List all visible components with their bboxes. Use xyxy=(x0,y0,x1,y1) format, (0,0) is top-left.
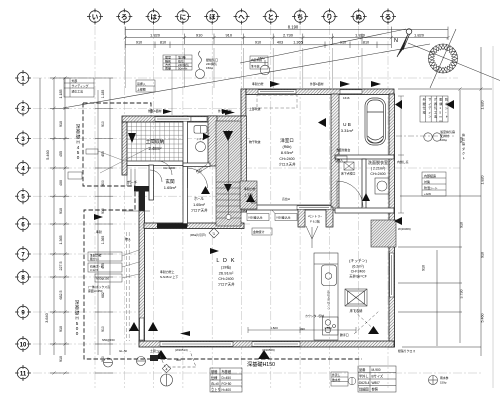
svg-text:フロア天井: フロア天井 xyxy=(191,208,209,213)
svg-text:気: 気 xyxy=(462,137,465,142)
svg-text:910: 910 xyxy=(481,252,485,258)
svg-text:仕様: 仕様 xyxy=(211,375,218,380)
svg-text:910: 910 xyxy=(59,208,63,214)
svg-text:455: 455 xyxy=(101,151,105,157)
svg-text:カウンタ−収納: カウンタ−収納 xyxy=(305,313,324,318)
svg-text:910: 910 xyxy=(136,41,142,45)
svg-text:ン: ン xyxy=(428,115,431,119)
svg-text:26.91m²: 26.91m² xyxy=(219,271,234,276)
svg-text:様: 様 xyxy=(423,109,426,114)
svg-text:1.820: 1.820 xyxy=(481,101,485,110)
left info box stack xyxy=(68,149,122,282)
porch step dashes bottom xyxy=(158,351,196,367)
bathtub xyxy=(365,98,386,145)
grid column marker へ xyxy=(234,9,250,25)
svg-text:クロス天井: クロス天井 xyxy=(279,162,297,167)
svg-text:内倒し窓: 内倒し窓 xyxy=(397,159,409,164)
svg-text:CH=2400: CH=2400 xyxy=(370,172,385,176)
svg-text:CH=2400: CH=2400 xyxy=(218,277,233,281)
svg-text:( 2.21m²): ( 2.21m²) xyxy=(371,167,386,171)
svg-text:910: 910 xyxy=(255,41,261,45)
svg-text:サイディング: サイディング xyxy=(72,83,89,88)
svg-text:GL±0: GL±0 xyxy=(211,382,219,386)
svg-text:内装制限: 内装制限 xyxy=(251,58,262,62)
svg-text:風量: 風量 xyxy=(165,66,171,71)
grid row marker 1 xyxy=(15,70,31,86)
svg-text:(R6b): (R6b) xyxy=(283,145,292,149)
svg-text:準耐力壁: 準耐力壁 xyxy=(252,81,264,86)
svg-text:洋室ロ: 洋室ロ xyxy=(280,137,294,144)
svg-text:ポ−チ: ポ−チ xyxy=(127,179,138,185)
svg-text:内部結露: 内部結露 xyxy=(424,173,436,178)
svg-text:参照: 参照 xyxy=(372,387,379,392)
svg-text:N-N45×2 上下: N-N45×2 上下 xyxy=(160,274,178,279)
svg-text:防湿シ−ト: 防湿シ−ト xyxy=(424,185,438,190)
bottom right small box and circle xyxy=(331,372,356,386)
svg-text:法: 法 xyxy=(434,114,437,119)
svg-text:490: 490 xyxy=(300,327,305,331)
svg-text:る: る xyxy=(385,13,392,21)
grid column marker ろ xyxy=(116,9,132,25)
hall diagonal slashes xyxy=(196,165,209,174)
svg-text:物入: 物入 xyxy=(337,157,343,162)
shear wall triangles xyxy=(94,81,454,359)
grid column marker い xyxy=(87,9,103,25)
closet hatched block bedroom xyxy=(240,181,257,209)
svg-text:片引: 片引 xyxy=(196,168,202,173)
svg-text:1.185: 1.185 xyxy=(59,90,63,99)
bedroom bottom legend boxes xyxy=(244,210,297,235)
svg-text:5.460: 5.460 xyxy=(481,314,485,323)
deep foundation dashed line xyxy=(83,103,362,359)
svg-text:1.65m²: 1.65m² xyxy=(193,203,206,207)
grid column marker に xyxy=(175,9,191,25)
svg-text:0: 0 xyxy=(76,331,79,336)
small label box above plan xyxy=(136,80,155,92)
svg-text:L D K: L D K xyxy=(216,258,235,264)
svg-text:グ: グ xyxy=(434,97,437,102)
interior dim line LDK xyxy=(248,327,356,333)
grid column marker ぬ xyxy=(351,9,367,25)
svg-text:(W16509): (W16509) xyxy=(262,348,275,352)
svg-text:ク: ク xyxy=(462,150,465,155)
vent fan symbol 1 xyxy=(195,51,204,79)
svg-text:ホ−ル: ホ−ル xyxy=(194,196,204,201)
svg-text:換: 換 xyxy=(462,132,465,137)
svg-text:910: 910 xyxy=(101,326,105,332)
svg-text:3.640: 3.640 xyxy=(45,313,49,323)
svg-text:11: 11 xyxy=(20,371,27,377)
svg-text:N50@150: N50@150 xyxy=(102,338,115,342)
svg-text:物入: 物入 xyxy=(125,236,131,241)
svg-text:床下収納: 床下収納 xyxy=(350,308,363,313)
svg-text:基: 基 xyxy=(76,128,81,134)
svg-text:詳細図: 詳細図 xyxy=(359,387,369,392)
floor access hatch xyxy=(344,162,354,170)
svg-text:10: 10 xyxy=(20,342,27,348)
svg-text:準耐力壁: 準耐力壁 xyxy=(244,186,256,191)
svg-text:Bサイズ: Bサイズ xyxy=(372,374,384,379)
svg-text:シンク W=2550: シンク W=2550 xyxy=(327,290,331,310)
svg-text:(W16513): (W16513) xyxy=(175,348,188,352)
svg-text:910: 910 xyxy=(101,121,105,127)
svg-text:403: 403 xyxy=(277,41,283,45)
top dimension chain overall 8.190 xyxy=(125,27,448,48)
washing machine xyxy=(375,178,389,194)
svg-text:(キッチン): (キッチン) xyxy=(349,258,367,263)
svg-text:0: 0 xyxy=(77,155,80,160)
grid row marker 6 xyxy=(15,216,31,232)
svg-text:(19帖): (19帖) xyxy=(221,265,231,270)
top-left info box xyxy=(64,78,94,97)
svg-text:通気工法: 通気工法 xyxy=(72,89,84,94)
svg-text:上下別: 上下別 xyxy=(244,192,253,197)
svg-text:気: 気 xyxy=(434,105,437,110)
svg-text:N50差込み: N50差込み xyxy=(249,215,263,220)
north arrow N xyxy=(394,29,412,57)
svg-text:防: 防 xyxy=(445,97,448,102)
left dimension column xyxy=(40,78,69,373)
windows xyxy=(140,90,394,346)
row grid center lines xyxy=(33,78,481,373)
svg-text:物干吹抜: 物干吹抜 xyxy=(249,139,261,144)
svg-text:5.460: 5.460 xyxy=(46,150,50,160)
bottom porch circles xyxy=(104,357,173,387)
svg-text:810: 810 xyxy=(160,41,166,45)
svg-text:CH=2400: CH=2400 xyxy=(279,157,294,161)
svg-text:M-900: M-900 xyxy=(372,368,381,372)
svg-text:玄関: 玄関 xyxy=(165,178,175,185)
svg-text:散水栓: 散水栓 xyxy=(332,378,341,382)
svg-text:通: 通 xyxy=(434,101,437,106)
svg-text:1.820: 1.820 xyxy=(150,32,161,37)
svg-text:D=450: D=450 xyxy=(222,376,232,380)
svg-text:2.48m²: 2.48m² xyxy=(148,146,162,151)
svg-text:(6.2m²): (6.2m²) xyxy=(352,265,364,269)
stud dashed lines left xyxy=(127,232,130,341)
svg-text:土間収納: 土間収納 xyxy=(146,138,165,145)
bedroom dashed rect xyxy=(257,95,297,108)
kitchen counter xyxy=(314,253,338,340)
svg-text:外: 外 xyxy=(423,97,426,102)
grid row marker 4 xyxy=(15,160,31,176)
svg-text:150φ: 150φ xyxy=(206,66,213,70)
svg-text:1616: 1616 xyxy=(343,96,350,100)
grid column marker と xyxy=(263,9,279,25)
svg-text:300: 300 xyxy=(176,358,181,362)
svg-text:ち: ち xyxy=(297,13,304,21)
svg-text:810: 810 xyxy=(363,41,369,45)
svg-text:100φ: 100φ xyxy=(440,138,447,142)
svg-text:910: 910 xyxy=(59,356,63,362)
stair hatched strip xyxy=(216,121,241,226)
storage hatched block right xyxy=(371,220,396,247)
svg-text:勝手口: 勝手口 xyxy=(340,332,349,337)
grid row marker 11 xyxy=(15,365,31,381)
svg-text:い: い xyxy=(92,13,99,21)
grid column marker り xyxy=(321,9,337,25)
toilet fixture xyxy=(194,126,207,152)
svg-text:ぬ: ぬ xyxy=(355,13,362,21)
svg-text:1.365: 1.365 xyxy=(101,236,105,245)
svg-text:外部A面材: 外部A面材 xyxy=(310,81,324,86)
vent fan symbol 2 xyxy=(260,60,270,75)
svg-text:227.5: 227.5 xyxy=(59,262,63,271)
svg-text:天井/床=CF: 天井/床=CF xyxy=(349,274,367,279)
bottom table 1 xyxy=(210,368,242,392)
porch corner solid wall xyxy=(134,186,150,211)
svg-text:床下点検口: 床下点検口 xyxy=(341,171,356,176)
grid row marker 5 xyxy=(15,188,31,204)
svg-text:基: 基 xyxy=(75,304,80,310)
grid row marker 7 xyxy=(15,246,31,262)
leader lines left xyxy=(98,147,150,278)
grid column marker ほ xyxy=(204,9,220,25)
exterior walls xyxy=(122,89,395,347)
svg-text:上部棚: 上部棚 xyxy=(137,87,146,92)
vent table leader xyxy=(171,70,173,115)
svg-text:品番: 品番 xyxy=(359,367,366,372)
right info box 2 xyxy=(422,172,446,196)
gear compass symbol xyxy=(429,44,458,73)
svg-text:8.93m²: 8.93m² xyxy=(281,150,294,155)
svg-text:フロア天井: フロア天井 xyxy=(218,282,236,287)
door arcs xyxy=(150,161,363,207)
svg-text:雨水桝: 雨水桝 xyxy=(440,376,449,380)
svg-text:は: は xyxy=(150,13,157,21)
svg-text:1.890: 1.890 xyxy=(324,326,332,330)
svg-text:布基礎: 布基礎 xyxy=(222,369,232,374)
small spec box upper xyxy=(250,56,268,69)
svg-text:910: 910 xyxy=(460,222,464,228)
svg-text:1.185: 1.185 xyxy=(101,90,105,99)
stair treads xyxy=(216,130,241,220)
svg-text:準不燃: 準不燃 xyxy=(251,65,260,69)
grid row marker 2 xyxy=(15,100,31,116)
svg-text:910: 910 xyxy=(196,32,203,37)
top dimension chain row2 xyxy=(125,34,448,44)
svg-text:筋かい: 筋かい xyxy=(90,256,99,261)
svg-text:1.820: 1.820 xyxy=(414,32,425,37)
svg-text:ト: ト xyxy=(445,115,448,119)
svg-text:+GW: +GW xyxy=(424,192,431,196)
doma floor grid xyxy=(127,122,183,161)
right dimension column xyxy=(398,46,493,388)
svg-text:壁: 壁 xyxy=(423,101,426,106)
svg-text:400: 400 xyxy=(101,180,105,186)
svg-text:455: 455 xyxy=(59,151,63,157)
underfloor storage hatch kitchen xyxy=(345,289,367,306)
svg-text:窓台H: 窓台H xyxy=(282,196,290,201)
dimension drop lines xyxy=(125,48,362,88)
svg-text:F 6.2帖: F 6.2帖 xyxy=(310,219,320,224)
section marker diamond 1 xyxy=(209,228,219,238)
porch steps xyxy=(122,169,150,211)
svg-text:FG+50: FG+50 xyxy=(222,382,232,386)
svg-text:り: り xyxy=(326,12,333,21)
svg-text:t=12.5: t=12.5 xyxy=(90,268,99,272)
svg-text:910: 910 xyxy=(422,265,426,271)
svg-text:上部吹抜: 上部吹抜 xyxy=(249,106,261,111)
svg-text:U B: U B xyxy=(343,122,351,127)
svg-text:N50@150: N50@150 xyxy=(96,277,109,281)
leader diagonal lines xyxy=(63,29,500,108)
svg-text:半外し: 半外し xyxy=(359,374,369,379)
svg-text:2.730: 2.730 xyxy=(283,32,294,37)
svg-text:腰窓: 腰窓 xyxy=(251,199,257,204)
svg-text:682.5: 682.5 xyxy=(59,291,63,300)
inner left dimension pair xyxy=(95,78,113,373)
washroom right dim line xyxy=(398,96,404,213)
svg-text:金物受け: 金物受け xyxy=(253,229,265,234)
svg-text:N50差込み: N50差込み xyxy=(277,215,291,220)
top dimension chain row3 xyxy=(125,42,391,49)
svg-text:H=400: H=400 xyxy=(222,388,232,392)
svg-text:D625-4: D625-4 xyxy=(359,381,370,385)
svg-text:に: に xyxy=(180,13,187,21)
interior walls xyxy=(127,94,394,227)
kitchen corner dashed braces xyxy=(354,311,379,334)
svg-text:50m³/h: 50m³/h xyxy=(178,67,188,71)
svg-text:910: 910 xyxy=(101,208,105,214)
svg-text:400: 400 xyxy=(59,180,63,186)
svg-text:洗面化粧台: 洗面化粧台 xyxy=(336,147,351,152)
svg-text:洗面脱衣室: 洗面脱衣室 xyxy=(368,159,388,165)
svg-text:ペントリ−: ペントリ− xyxy=(308,215,323,219)
svg-text:へ: へ xyxy=(238,14,245,21)
svg-text:縁: 縁 xyxy=(439,101,442,106)
right info box 1 xyxy=(420,96,448,122)
svg-text:対策: 対策 xyxy=(424,179,430,184)
svg-text:1.65m²: 1.65m² xyxy=(164,185,177,190)
svg-text:基礎: 基礎 xyxy=(211,369,218,374)
svg-text:座面H=450: 座面H=450 xyxy=(88,288,103,293)
grid row marker 9 xyxy=(15,304,31,320)
svg-text:910: 910 xyxy=(59,326,63,332)
svg-text:準耐: 準耐 xyxy=(96,229,102,234)
svg-text:外流し: 外流し xyxy=(332,373,341,377)
svg-text:デ: デ xyxy=(428,105,431,110)
svg-text:1.820: 1.820 xyxy=(270,326,278,330)
svg-text:と: と xyxy=(268,13,275,21)
grid row marker 8 xyxy=(15,269,31,285)
svg-text:土間コン: 土間コン xyxy=(150,348,162,353)
svg-text:CH=2400: CH=2400 xyxy=(163,166,176,170)
svg-text:吊押入: 吊押入 xyxy=(137,81,146,86)
column grid center lines xyxy=(95,26,388,388)
grid column marker ち xyxy=(292,9,308,25)
svg-text:扇: 扇 xyxy=(462,141,465,146)
svg-text:ト: ト xyxy=(462,156,465,160)
washroom shelf xyxy=(336,156,347,162)
svg-text:W(16309): W(16309) xyxy=(398,227,411,231)
svg-text:深基礎H150: 深基礎H150 xyxy=(247,360,275,368)
svg-text:準耐力壁上: 準耐力壁上 xyxy=(160,269,175,274)
svg-text:水: 水 xyxy=(445,101,448,106)
grid row marker 3 xyxy=(15,131,31,147)
svg-text:外部A面材: 外部A面材 xyxy=(218,108,232,113)
svg-text:1.820: 1.820 xyxy=(355,32,366,37)
svg-text:1.820: 1.820 xyxy=(481,176,485,185)
svg-text:ほ: ほ xyxy=(209,13,216,21)
svg-text:910: 910 xyxy=(59,121,63,127)
svg-text:8.190: 8.190 xyxy=(288,24,299,29)
grid column marker る xyxy=(380,9,396,25)
grid row marker 10 xyxy=(15,336,31,352)
pantry funnel xyxy=(306,226,318,248)
svg-text:(R6a片引戸): (R6a片引戸) xyxy=(190,232,206,237)
grid column marker は xyxy=(146,9,162,25)
svg-text:サ: サ xyxy=(428,97,431,102)
step dark mark xyxy=(150,355,158,361)
svg-text:ダ: ダ xyxy=(462,146,465,151)
svg-text:3.31m²: 3.31m² xyxy=(341,128,354,133)
bottom table 2 xyxy=(358,366,396,392)
svg-text:ろ: ろ xyxy=(121,13,128,21)
svg-text:立上り: 立上り xyxy=(211,387,221,392)
right vent circle xyxy=(424,133,432,141)
svg-text:1.365: 1.365 xyxy=(59,236,63,245)
svg-text:150φ: 150φ xyxy=(440,381,447,385)
svg-text:910: 910 xyxy=(225,32,232,37)
svg-text:W807: W807 xyxy=(372,381,381,385)
svg-text:紙張りクロス: 紙張りクロス xyxy=(398,348,415,353)
svg-text:仕: 仕 xyxy=(423,105,426,110)
svg-text:外部: 外部 xyxy=(72,78,78,83)
svg-text:GL-50: GL-50 xyxy=(119,349,127,353)
bottom right vent circle xyxy=(429,376,438,385)
svg-text:外部A面材: 外部A面材 xyxy=(148,108,162,113)
right dim slashes xyxy=(458,87,482,90)
genkan entrance door dark band xyxy=(157,223,187,228)
section marker diamond 4 xyxy=(162,364,170,372)
svg-text:N: N xyxy=(394,38,398,44)
svg-text:3.730: 3.730 xyxy=(460,290,464,299)
vent spec table top xyxy=(163,55,192,70)
svg-text:4: 4 xyxy=(166,367,168,371)
svg-text:CH=2400: CH=2400 xyxy=(351,270,366,274)
svg-text:1.365: 1.365 xyxy=(293,41,303,45)
